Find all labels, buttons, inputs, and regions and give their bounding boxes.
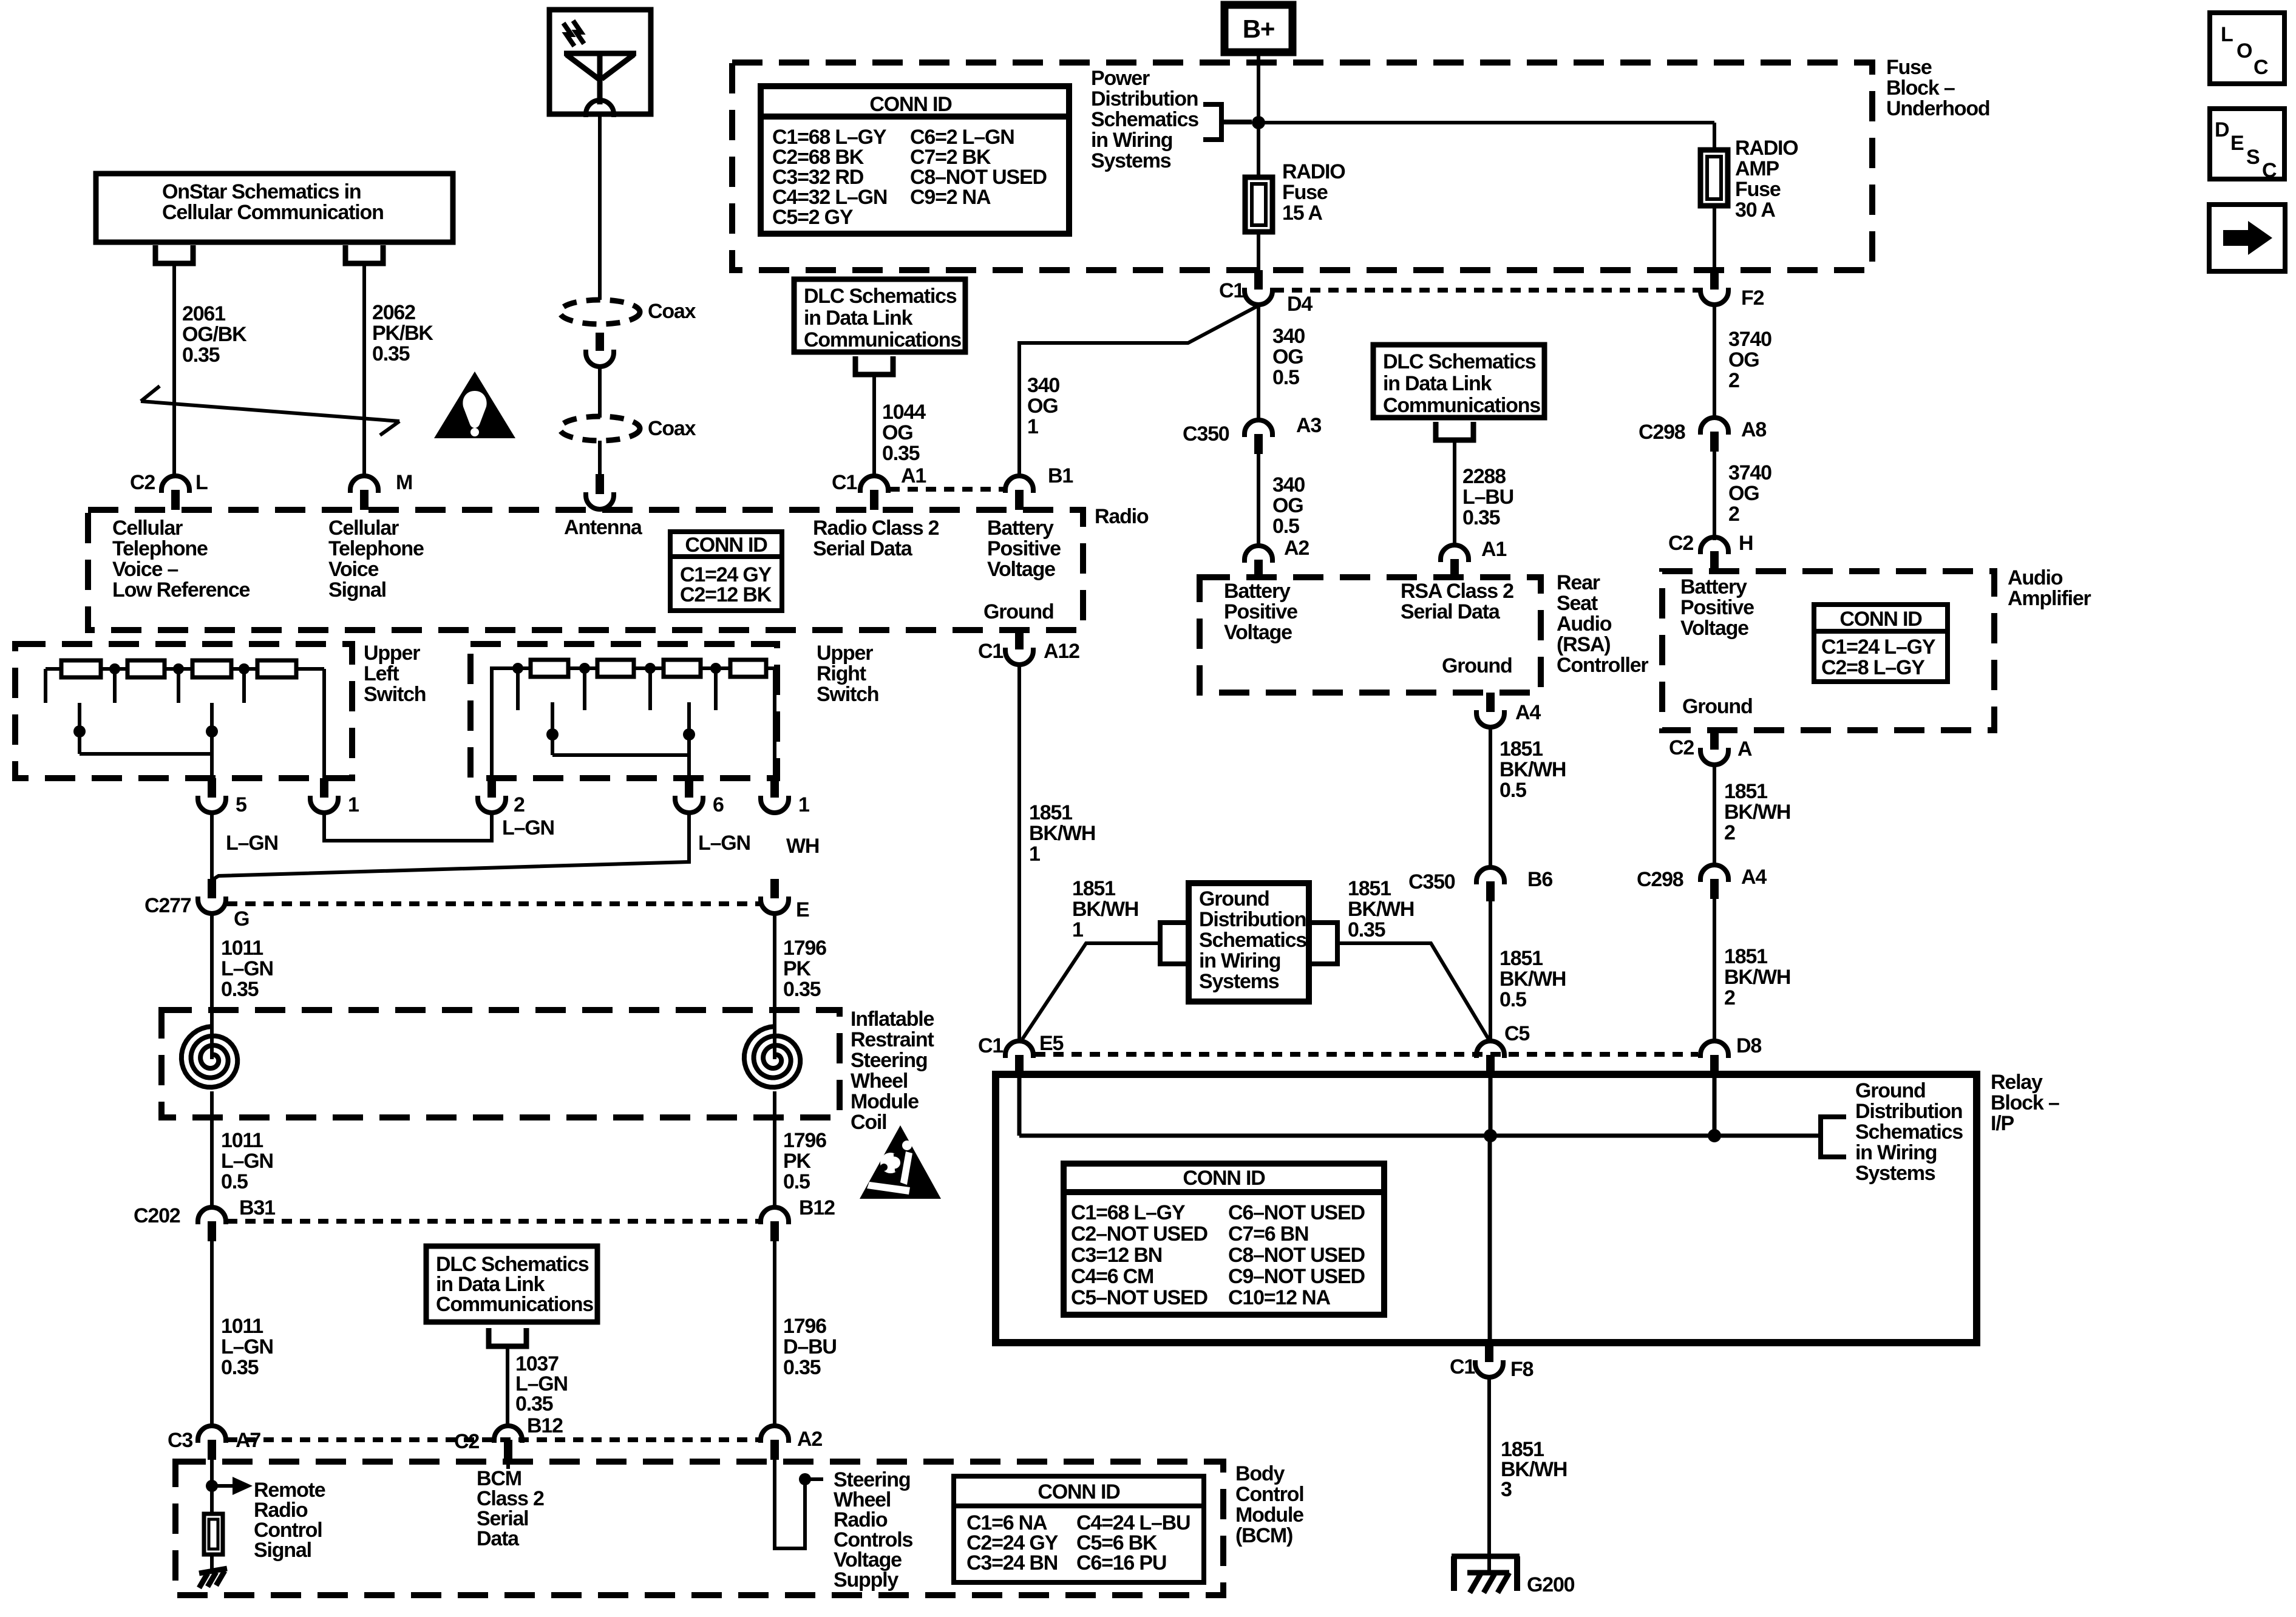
svg-text:1011: 1011: [221, 1315, 263, 1338]
urs resistor 4: [730, 660, 766, 677]
label L-GN pin6: [698, 832, 750, 855]
svg-text:Systems: Systems: [1091, 149, 1171, 172]
wire radio fuse to D4: [1257, 232, 1260, 270]
wire 1851 BKWH 2 b: [1713, 899, 1716, 1042]
svg-text:3: 3: [1501, 1478, 1512, 1501]
connector pin A4 rsa: [1476, 693, 1504, 727]
svg-text:Coax: Coax: [648, 417, 696, 440]
svg-text:C1=24 L–GY: C1=24 L–GY: [1821, 636, 1936, 659]
svg-text:Distribution: Distribution: [1091, 87, 1198, 110]
label Antenna: [564, 516, 643, 539]
fork terminal DLC1: [855, 356, 893, 375]
fuse block conn id table: [761, 86, 1069, 234]
svg-text:0.35: 0.35: [221, 978, 259, 1001]
uls wiper a: [73, 703, 86, 754]
conn line C3 bcm: [227, 1437, 759, 1442]
wire B12 inside bcm: [506, 1460, 510, 1469]
svg-text:L–GN: L–GN: [221, 1150, 273, 1173]
wire 3740 OG 2 a: [1713, 305, 1716, 418]
svg-text:A4: A4: [1515, 701, 1541, 724]
bcm conn id title: [1038, 1480, 1120, 1503]
svg-text:Distribution: Distribution: [1199, 908, 1306, 931]
svg-text:RADIO: RADIO: [1282, 160, 1345, 183]
label Coax 1: [648, 300, 696, 323]
svg-text:in Wiring: in Wiring: [1199, 949, 1280, 972]
loc icon: [2210, 13, 2284, 84]
svg-text:Amplifier: Amplifier: [2008, 587, 2091, 610]
svg-text:CONN ID: CONN ID: [1839, 608, 1922, 631]
svg-text:C10=12 NA: C10=12 NA: [1228, 1286, 1330, 1309]
svg-text:Schematics: Schematics: [1091, 108, 1198, 131]
svg-text:Systems: Systems: [1199, 970, 1279, 993]
DLC reference box 1: [794, 279, 965, 352]
junction dot D8 bus: [1708, 1129, 1721, 1142]
svg-text:D–BU: D–BU: [783, 1335, 837, 1358]
relay conn id table: [1064, 1164, 1384, 1315]
svg-text:BK/WH: BK/WH: [1029, 822, 1095, 845]
svg-text:Upper: Upper: [364, 642, 420, 665]
svg-text:L–GN: L–GN: [221, 1335, 273, 1358]
label 1851 BKWH 2 a: [1724, 780, 1790, 844]
desc icon: [2210, 109, 2284, 182]
uls resistor 4: [257, 660, 296, 677]
label Ground Distribution Schematics relay: [1855, 1079, 1963, 1185]
uls junction a: [109, 663, 120, 703]
svg-text:5: 5: [236, 793, 246, 816]
label 2288 L-BU 0.35: [1462, 465, 1513, 529]
airbag warning triangle: [860, 1125, 941, 1199]
label Remote Radio Control Signal: [254, 1479, 325, 1562]
svg-text:C9–NOT USED: C9–NOT USED: [1228, 1265, 1365, 1288]
connector C202 pin B31: [198, 1207, 226, 1241]
label Rear Seat Audio RSA Controller: [1557, 571, 1648, 677]
svg-text:Body: Body: [1235, 1462, 1285, 1485]
OnStar reference box: [96, 174, 453, 242]
svg-text:I/P: I/P: [1991, 1112, 2014, 1135]
label F8: [1510, 1358, 1533, 1381]
twisted pair marker: [141, 386, 399, 435]
svg-text:D8: D8: [1736, 1034, 1761, 1057]
svg-text:1044: 1044: [882, 401, 926, 424]
svg-text:OG: OG: [1728, 348, 1759, 371]
wire 340 OG 0.5 b: [1257, 454, 1260, 546]
svg-text:C: C: [2254, 56, 2268, 79]
label A1 rsa: [1481, 538, 1506, 561]
svg-text:OnStar Schematics in: OnStar Schematics in: [162, 180, 361, 203]
wire 1011 lower: [210, 1241, 214, 1426]
svg-text:3740: 3740: [1728, 461, 1771, 484]
svg-text:A4: A4: [1741, 866, 1767, 889]
junction dot C5 bus: [1484, 1129, 1497, 1142]
inline coax connector: [586, 333, 614, 367]
wire 1851 BKWH 1: [1017, 665, 1021, 1042]
label B31: [239, 1196, 275, 1219]
svg-text:1851: 1851: [1724, 780, 1767, 803]
connector C350 pin A3: [1245, 420, 1272, 454]
svg-text:Fuse: Fuse: [1735, 178, 1781, 201]
junction steering: [799, 1473, 823, 1485]
svg-text:Signal: Signal: [254, 1539, 311, 1562]
svg-text:WH: WH: [786, 835, 819, 858]
wire A7 inside bcm: [210, 1460, 214, 1514]
label F2: [1741, 286, 1764, 310]
conn line A1 B1: [889, 487, 1004, 492]
svg-text:Module: Module: [1235, 1503, 1303, 1527]
svg-text:C5: C5: [1504, 1022, 1529, 1045]
wire antenna mid: [598, 367, 602, 418]
svg-text:0.35: 0.35: [882, 442, 920, 465]
urs junction c: [645, 663, 656, 710]
svg-text:AMP: AMP: [1735, 157, 1779, 180]
connector C2 pin L: [161, 476, 189, 510]
bcm box: [175, 1462, 1223, 1595]
steering wheel coil right: [744, 1026, 800, 1087]
wire pin1 to pin2: [324, 813, 492, 841]
wire below resistor: [210, 1554, 214, 1571]
connector C3 pin A7: [198, 1426, 226, 1460]
label Ground Distribution Schematics mid: [1199, 887, 1306, 993]
label RADIO AMP Fuse 30 A: [1735, 137, 1798, 222]
label A4 c298: [1741, 866, 1767, 889]
label 340 OG 0.5 a: [1272, 325, 1305, 389]
svg-text:Left: Left: [364, 662, 399, 685]
label L: [195, 471, 208, 494]
fork terminal L: [155, 245, 193, 263]
radio conn id table: [670, 532, 782, 611]
svg-text:L–BU: L–BU: [1462, 486, 1513, 509]
junction dot remote: [206, 1480, 218, 1492]
svg-text:0.35: 0.35: [783, 1356, 821, 1379]
svg-text:Coil: Coil: [851, 1111, 886, 1134]
label DLC Schematics 1: [804, 285, 961, 351]
urs wiper a: [546, 702, 559, 755]
svg-text:Fuse: Fuse: [1282, 181, 1328, 204]
svg-text:RSA Class 2: RSA Class 2: [1401, 580, 1513, 603]
svg-text:H: H: [1739, 532, 1753, 555]
connector pin B12 coil: [761, 1207, 789, 1241]
svg-text:S: S: [2246, 146, 2260, 169]
svg-text:L: L: [195, 471, 208, 494]
wire antenna upper: [598, 115, 602, 300]
svg-text:Antenna: Antenna: [564, 516, 643, 539]
svg-text:0.5: 0.5: [783, 1170, 810, 1193]
svg-text:BK/WH: BK/WH: [1348, 898, 1414, 921]
svg-text:Ground: Ground: [1855, 1079, 1926, 1102]
label E5: [1039, 1032, 1063, 1055]
svg-text:Block –: Block –: [1886, 76, 1955, 100]
svg-text:OG: OG: [1027, 395, 1058, 418]
wire 1796 D-BU: [773, 1241, 776, 1426]
svg-text:1796: 1796: [783, 937, 826, 960]
label Steering Wheel Radio Controls Voltage Supply: [834, 1468, 912, 1592]
svg-text:E: E: [796, 898, 809, 921]
label Upper Left Switch: [364, 642, 426, 706]
svg-text:Serial Data: Serial Data: [1401, 600, 1501, 623]
connector C1 pin E5: [1005, 1041, 1033, 1075]
svg-text:Upper: Upper: [817, 642, 873, 665]
svg-text:C298: C298: [1637, 868, 1683, 891]
label C1 at D4: [1219, 279, 1244, 302]
wire 1851 BKWH 3: [1487, 1377, 1491, 1571]
svg-text:C277: C277: [144, 894, 191, 917]
svg-text:L–GN: L–GN: [221, 957, 273, 980]
label Audio Amplifier: [2008, 566, 2091, 610]
label Ground amp: [1682, 695, 1753, 718]
fuse block conn id col2: [910, 126, 1047, 209]
label 1796 PK 0.5: [783, 1129, 826, 1193]
label 1851 BKWH 0.5 a: [1500, 737, 1566, 802]
svg-text:1: 1: [1029, 842, 1040, 866]
svg-text:Telephone: Telephone: [328, 537, 424, 560]
connector C298 pin A8: [1700, 418, 1728, 452]
label 1851 BKWH 0.35: [1348, 877, 1414, 941]
antenna symbol: [563, 21, 636, 104]
svg-text:Underhood: Underhood: [1886, 97, 1990, 120]
coax shield 2: [560, 416, 640, 441]
ground distribution box: [1189, 883, 1309, 1002]
label Ground rsa: [1442, 654, 1512, 677]
svg-text:DLC Schematics: DLC Schematics: [1383, 350, 1536, 373]
relay conn id title: [1183, 1167, 1265, 1190]
label Body Control Module BCM: [1235, 1462, 1303, 1547]
svg-text:Cellular: Cellular: [112, 517, 183, 540]
svg-text:Communications: Communications: [804, 328, 961, 351]
label BCM Class 2 Serial Data: [477, 1467, 544, 1550]
svg-text:C6=16 PU: C6=16 PU: [1076, 1551, 1166, 1575]
svg-text:Block –: Block –: [1991, 1091, 2059, 1114]
svg-text:BK/WH: BK/WH: [1500, 758, 1566, 781]
svg-text:C5=2 GY: C5=2 GY: [772, 206, 854, 229]
svg-text:OG: OG: [1272, 494, 1303, 517]
uls junction c: [239, 663, 250, 703]
svg-text:B12: B12: [527, 1414, 563, 1437]
remote arrow: [212, 1477, 253, 1495]
svg-text:Cellular: Cellular: [328, 517, 399, 540]
battery feed B+ box: [1224, 5, 1292, 52]
svg-text:Module: Module: [851, 1090, 919, 1113]
svg-text:C1: C1: [1219, 279, 1244, 302]
svg-text:B31: B31: [239, 1196, 275, 1219]
label C350 at A3: [1183, 422, 1229, 446]
rsa controller box: [1200, 577, 1541, 693]
wire C5 inside: [1489, 1075, 1493, 1136]
svg-text:DLC Schematics: DLC Schematics: [804, 285, 957, 308]
connector pin C5: [1476, 1041, 1504, 1075]
uls resistor 2: [127, 660, 165, 677]
svg-text:1: 1: [1072, 918, 1083, 941]
svg-text:2: 2: [514, 793, 525, 816]
urs resistor 3: [664, 660, 701, 677]
svg-text:0.35: 0.35: [372, 342, 410, 365]
wire 340 OG 0.5 a: [1257, 305, 1260, 420]
label A12: [1044, 640, 1079, 663]
wire A2 inside bcm: [775, 1460, 805, 1548]
uls wiper b: [206, 703, 218, 778]
wire pin5 down: [210, 813, 214, 879]
label A4 rsa: [1515, 701, 1541, 724]
svg-text:0.5: 0.5: [221, 1170, 248, 1193]
svg-text:1: 1: [1027, 415, 1038, 438]
bcm conn id table: [954, 1476, 1204, 1582]
svg-text:Voltage: Voltage: [1224, 621, 1292, 644]
svg-text:BK/WH: BK/WH: [1724, 966, 1790, 989]
connector pin B1 radio: [1005, 476, 1033, 510]
wire 1851 BKWH 2 a: [1713, 765, 1716, 865]
connector C277 pin G: [198, 879, 226, 914]
svg-text:C1: C1: [832, 471, 857, 494]
svg-text:Serial Data: Serial Data: [813, 537, 913, 560]
svg-text:G200: G200: [1527, 1573, 1575, 1596]
svg-text:Seat: Seat: [1557, 592, 1598, 615]
svg-text:O: O: [2237, 39, 2252, 63]
svg-text:A: A: [1737, 737, 1752, 761]
svg-text:30 A: 30 A: [1735, 198, 1775, 222]
svg-text:F2: F2: [1741, 286, 1764, 310]
label Battery Positive Voltage radio: [987, 517, 1061, 581]
DLC reference box 3: [426, 1246, 597, 1322]
urs junction b: [579, 663, 590, 710]
conn line D4 F2: [1274, 288, 1699, 293]
label A2 bcm: [797, 1428, 822, 1451]
label 340 OG 1: [1027, 374, 1059, 438]
fork terminal DLC2: [1436, 422, 1473, 440]
connector pin D8: [1700, 1041, 1728, 1075]
svg-text:C1: C1: [978, 1034, 1003, 1057]
label Power Distribution Schematics: [1091, 67, 1198, 172]
connector pin 5: [198, 778, 226, 813]
label 1851 BKWH 0.5 b: [1500, 947, 1566, 1011]
svg-text:C298: C298: [1639, 421, 1685, 444]
label Radio: [1095, 505, 1149, 528]
svg-text:C2=8 L–GY: C2=8 L–GY: [1821, 656, 1925, 679]
relay conn id col1: [1071, 1201, 1207, 1309]
label 2062 PK/BK 0.35: [372, 301, 433, 365]
wire 1796 to coil: [773, 914, 776, 1059]
label pin 1 right: [798, 793, 809, 816]
label pin 1 left: [348, 793, 359, 816]
inflatable restraint box: [161, 1010, 840, 1117]
label D4: [1287, 293, 1313, 316]
svg-text:C2: C2: [130, 471, 155, 494]
label 1851 BKWH 2 b: [1724, 945, 1790, 1009]
bcm conn id col2: [1076, 1511, 1190, 1575]
label C1 at A12: [978, 640, 1003, 663]
fork terminal M: [345, 245, 383, 263]
svg-text:PK/BK: PK/BK: [372, 322, 433, 345]
svg-text:C202: C202: [134, 1204, 180, 1227]
label C2 at H: [1668, 532, 1693, 555]
svg-text:Control: Control: [1235, 1483, 1303, 1506]
label B12 coil: [799, 1196, 835, 1219]
wire amp branch: [1713, 123, 1716, 150]
svg-text:D: D: [2215, 118, 2229, 141]
label 1011 L-GN 0.35 upper: [221, 937, 273, 1001]
svg-text:C3=12 BN: C3=12 BN: [1071, 1244, 1162, 1267]
connector pin E: [761, 879, 789, 914]
label E: [796, 898, 809, 921]
svg-text:0.35: 0.35: [1462, 506, 1500, 529]
uls wiper link: [80, 752, 212, 756]
audio amplifier box: [1662, 571, 1994, 730]
connector pin A2 rsa: [1245, 546, 1272, 580]
wire ground dist right: [1337, 943, 1489, 1039]
svg-text:1011: 1011: [221, 1129, 263, 1152]
radio conn id rows: [680, 563, 772, 606]
svg-text:Power: Power: [1091, 67, 1150, 90]
label L-GN pin2: [502, 816, 554, 839]
uls junction b: [173, 663, 184, 703]
svg-text:A12: A12: [1044, 640, 1079, 663]
label D8: [1736, 1034, 1761, 1057]
relay bracket: [1821, 1117, 1846, 1157]
svg-text:in Data Link: in Data Link: [1383, 372, 1492, 395]
conn line C277: [227, 901, 759, 906]
svg-text:Battery: Battery: [1224, 580, 1291, 603]
label pin 6: [713, 793, 724, 816]
svg-text:M: M: [396, 471, 412, 494]
svg-text:Schematics: Schematics: [1855, 1120, 1963, 1144]
fuse block box: [732, 63, 1872, 270]
label pin 5: [236, 793, 246, 816]
label WH: [786, 835, 819, 858]
svg-text:A2: A2: [1284, 537, 1309, 560]
svg-text:C7=6 BN: C7=6 BN: [1228, 1222, 1308, 1246]
svg-text:G: G: [234, 907, 249, 931]
connector pin 1 left: [310, 778, 338, 813]
label Coax 2: [648, 417, 696, 440]
label A8: [1741, 418, 1766, 441]
amp conn id table: [1814, 605, 1948, 682]
svg-text:BK/WH: BK/WH: [1724, 801, 1790, 824]
svg-text:C2: C2: [1669, 736, 1694, 759]
svg-text:2: 2: [1724, 821, 1735, 844]
svg-text:Positive: Positive: [1680, 596, 1754, 619]
svg-text:Radio Class 2: Radio Class 2: [813, 517, 939, 540]
svg-text:L–GN: L–GN: [698, 832, 750, 855]
connector C1 pin D4: [1245, 270, 1272, 305]
bcm chassis ground: [199, 1568, 227, 1588]
svg-text:PK: PK: [783, 1150, 811, 1173]
connector C1 pin A12: [1005, 630, 1033, 665]
svg-text:Fuse: Fuse: [1886, 56, 1932, 79]
svg-text:1011: 1011: [221, 937, 263, 960]
svg-text:3740: 3740: [1728, 328, 1771, 351]
svg-text:C9=2 NA: C9=2 NA: [910, 186, 991, 209]
label C3: [168, 1429, 192, 1452]
svg-text:Telephone: Telephone: [112, 537, 208, 560]
label L-GN pin5: [226, 832, 278, 855]
svg-text:Data: Data: [477, 1527, 520, 1550]
svg-text:Communications: Communications: [436, 1293, 593, 1316]
svg-text:Coax: Coax: [648, 300, 696, 323]
svg-text:0.35: 0.35: [783, 978, 821, 1001]
svg-text:L: L: [2221, 23, 2233, 46]
svg-text:OG/BK: OG/BK: [182, 323, 247, 346]
svg-text:C: C: [2262, 159, 2277, 182]
label C277: [144, 894, 191, 917]
svg-text:Signal: Signal: [328, 578, 386, 602]
urs feed wire: [492, 668, 531, 778]
svg-text:2062: 2062: [372, 301, 415, 324]
wire 1011 to coil: [210, 914, 214, 1059]
label Battery Positive Voltage rsa: [1224, 580, 1297, 644]
urs junction a: [512, 663, 523, 710]
svg-text:Ground: Ground: [1442, 654, 1512, 677]
label C1 radio A1: [832, 471, 857, 494]
svg-text:F8: F8: [1510, 1358, 1533, 1381]
upper left switch box: [15, 644, 352, 778]
svg-text:E5: E5: [1039, 1032, 1063, 1055]
